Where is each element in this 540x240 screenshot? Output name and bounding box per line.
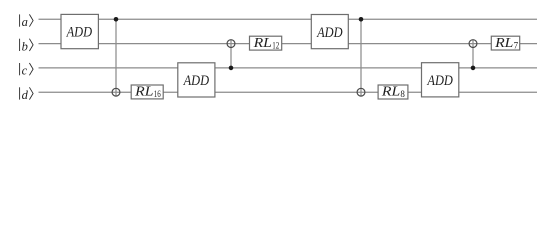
svg-text:ADD: ADD (183, 73, 210, 89)
node |d> label (20, 87, 33, 102)
svg-text:c: c (22, 64, 28, 78)
svg-text:ADD: ADD (66, 25, 93, 41)
CNOT target on wire d (357, 88, 365, 96)
wire c (39, 67, 538, 69)
svg-text:12: 12 (272, 40, 279, 50)
gate RL7 on wire b (491, 35, 519, 51)
gate ADD U3 on wires a,b (311, 15, 348, 49)
gate RL8 on wire d (378, 83, 408, 99)
wire a (39, 18, 538, 20)
control dot on wire c (471, 66, 476, 71)
svg-text:RL: RL (252, 35, 272, 50)
node |c> label (20, 63, 33, 78)
control wire x=231 (b to c) (230, 40, 232, 68)
gate ADD U4 on wires c,d (422, 63, 459, 97)
svg-text:b: b (22, 39, 28, 53)
wire b (39, 43, 538, 45)
node |a> label (20, 14, 33, 29)
svg-text:d: d (22, 88, 29, 102)
CNOT target on wire b (227, 40, 235, 48)
gate ADD U2 on wires c,d (178, 63, 215, 97)
control wire x=116 (a to d) (115, 19, 117, 96)
svg-text:8: 8 (400, 89, 405, 99)
gate RL16 on wire d (131, 83, 163, 99)
control wire x=473 (b to c) (472, 40, 474, 68)
node |b> label (20, 39, 33, 54)
svg-text:a: a (22, 15, 28, 29)
CNOT target on wire d (112, 88, 120, 96)
gate ADD U1 on wires a,b (61, 14, 98, 48)
control dot on wire c (229, 66, 234, 71)
CNOT target on wire b (469, 40, 477, 48)
svg-text:ADD: ADD (316, 25, 343, 41)
control dot on wire a (114, 17, 119, 22)
svg-text:RL: RL (134, 83, 154, 98)
control dot on wire a (359, 17, 364, 22)
svg-text:ADD: ADD (427, 73, 454, 89)
svg-text:RL: RL (381, 83, 401, 98)
gate RL12 on wire b (250, 35, 282, 51)
control wire x=361 (a to d) (360, 19, 362, 96)
svg-text:16: 16 (154, 89, 161, 99)
svg-text:7: 7 (514, 40, 519, 50)
svg-text:RL: RL (494, 35, 514, 50)
wire d (39, 91, 538, 93)
